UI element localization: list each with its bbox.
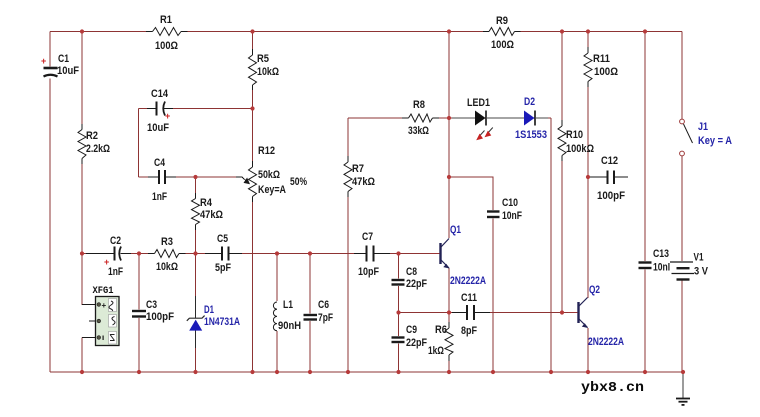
svg-text:R1: R1	[160, 14, 172, 26]
wire elbow vertical x138.5	[138, 109, 140, 178]
wire R6 vertical	[448, 313, 450, 373]
svg-text:1N4731A: 1N4731A	[204, 316, 240, 328]
svg-text:2N2222A: 2N2222A	[588, 336, 624, 348]
resistor R3	[148, 236, 186, 273]
svg-text:10kΩ: 10kΩ	[257, 66, 279, 78]
svg-text:90nH: 90nH	[278, 320, 301, 332]
switch J1	[680, 119, 732, 156]
transistor Q2	[568, 284, 624, 348]
svg-text:L1: L1	[283, 299, 293, 311]
node mid R2	[80, 251, 84, 255]
svg-text:C6: C6	[318, 299, 329, 311]
svg-text:LED1: LED1	[467, 97, 490, 109]
svg-text:R3: R3	[161, 236, 173, 248]
svg-text:C13: C13	[653, 248, 669, 260]
svg-text:R6: R6	[435, 324, 447, 336]
wire LED row y118	[348, 117, 551, 119]
svg-text:10pF: 10pF	[358, 266, 379, 278]
node mid C3	[137, 251, 141, 255]
svg-text:100pF: 100pF	[146, 311, 174, 323]
wire R4 vertical	[195, 177, 197, 254]
wire L1 vertical	[276, 254, 278, 373]
node bottom R12	[250, 370, 254, 374]
wire mid horizontal y253.5	[82, 253, 430, 255]
wire top horizontal	[50, 31, 682, 33]
node bottom C6	[308, 370, 312, 374]
wire D1 vertical	[195, 254, 197, 373]
svg-text:8pF: 8pF	[461, 325, 477, 337]
node bottom C3	[137, 370, 141, 374]
svg-text:50%: 50%	[290, 176, 307, 188]
svg-text:D1: D1	[204, 304, 214, 316]
svg-text:R7: R7	[352, 163, 364, 175]
wire C10 elbow	[449, 177, 493, 372]
diode D2	[512, 96, 548, 141]
node bottom R6	[447, 370, 451, 374]
wire C3 vertical	[138, 254, 140, 373]
svg-text:R4: R4	[200, 197, 213, 209]
svg-text:Q2: Q2	[589, 284, 600, 296]
wire J1 V1 vertical x682	[681, 32, 683, 120]
wire J1 bottom to V1	[681, 156, 683, 262]
svg-text:100pF: 100pF	[597, 190, 625, 202]
svg-text:C3: C3	[146, 299, 157, 311]
wire Q1 string vertical x449	[448, 32, 450, 239]
resistor R5	[248, 49, 280, 90]
potentiometer R12	[236, 145, 307, 202]
node bottom D2 line	[549, 370, 553, 374]
capacitor C9	[391, 324, 428, 349]
node C12 R11 junction	[586, 175, 590, 179]
node top C13 tap	[643, 29, 647, 33]
wire C6 vertical	[309, 254, 311, 373]
node mid L1	[275, 251, 279, 255]
wire Q2 emitter vertical	[587, 328, 589, 372]
svg-text:47kΩ: 47kΩ	[352, 176, 375, 188]
svg-text:+: +	[102, 301, 107, 310]
svg-text:+: +	[165, 111, 170, 121]
resistor R4	[191, 193, 224, 230]
svg-text:C14: C14	[151, 88, 169, 100]
node top Q1 tap	[447, 29, 451, 33]
svg-text:ybx8.cn: ybx8.cn	[581, 380, 644, 396]
node R8 LED junction	[447, 116, 451, 120]
capacitor C14	[147, 88, 173, 134]
battery V1	[670, 252, 709, 281]
capacitor C8	[391, 266, 428, 290]
capacitor C12	[590, 155, 628, 202]
capacitor C13	[638, 248, 674, 274]
node top R10 tap	[560, 29, 564, 33]
wire emitter-base horizontal y312.5	[399, 312, 579, 314]
svg-text:50kΩ: 50kΩ	[258, 169, 280, 181]
svg-text:33kΩ: 33kΩ	[408, 125, 429, 137]
capacitor C5	[205, 233, 242, 274]
node bottom L1	[275, 370, 279, 374]
svg-text:22pF: 22pF	[406, 337, 427, 349]
svg-text:R11: R11	[593, 53, 610, 65]
svg-text:C7: C7	[362, 231, 373, 243]
wire left vertical C1 branch	[49, 32, 51, 373]
svg-text:Q1: Q1	[450, 224, 461, 236]
svg-text:10kΩ: 10kΩ	[156, 261, 178, 273]
svg-text:47kΩ: 47kΩ	[200, 209, 223, 221]
LED LED1	[452, 97, 512, 140]
svg-text:Key=A: Key=A	[258, 184, 286, 196]
node bottom C10	[491, 370, 495, 374]
node bottom C9	[396, 370, 400, 374]
node mid C7 C8	[396, 251, 400, 255]
resistor R10	[557, 120, 594, 161]
wire Q1 emitter vertical	[448, 268, 450, 313]
svg-text:C9: C9	[406, 324, 417, 336]
node bottom R7	[346, 370, 350, 374]
wire R7 vertical	[347, 118, 349, 372]
capacitor C7	[354, 231, 390, 278]
svg-text:C10: C10	[502, 197, 518, 209]
node bottom V1 corner	[681, 370, 685, 374]
zener diode D1	[187, 296, 240, 348]
capacitor C1	[41, 53, 79, 79]
svg-text:3 V: 3 V	[694, 266, 709, 278]
svg-text:C4: C4	[154, 157, 166, 169]
svg-text:22pF: 22pF	[406, 278, 427, 290]
wire bottom horizontal y372	[50, 371, 683, 373]
svg-text:C5: C5	[217, 233, 228, 245]
capacitor C3	[131, 299, 174, 323]
svg-text:7pF: 7pF	[318, 312, 333, 324]
wire C14 horizontal y108.5	[139, 108, 253, 110]
svg-text:R2: R2	[86, 130, 98, 142]
ground	[676, 399, 690, 405]
node top R5 tap	[250, 29, 254, 33]
wire C13 vertical x645	[644, 32, 646, 373]
node C14 R5 junction	[250, 106, 254, 110]
wire C8 C9 vertical x398.5	[398, 254, 400, 373]
svg-text:10uF: 10uF	[147, 122, 169, 134]
node emitter wire Q1 R6	[447, 310, 451, 314]
svg-text:2N2222A: 2N2222A	[450, 275, 486, 287]
svg-text:R9: R9	[496, 15, 508, 27]
wire R2/XFG vertical x82	[81, 32, 83, 306]
capacitor C2 polarized	[86, 235, 131, 278]
svg-text:2.2kΩ: 2.2kΩ	[86, 143, 110, 155]
svg-text:C2: C2	[110, 235, 121, 247]
wire C4 horizontal y177	[139, 176, 239, 178]
svg-text:1nF: 1nF	[108, 266, 123, 278]
node bottom C13	[643, 370, 647, 374]
wire R10 vertical x562	[561, 32, 563, 313]
svg-text:R8: R8	[413, 99, 425, 111]
transistor Q1	[430, 224, 486, 287]
resistor R8	[402, 99, 439, 137]
svg-text:1S1553: 1S1553	[515, 129, 547, 141]
wire R5-R12 vertical x252.5	[252, 32, 254, 373]
wire V1 to ground	[681, 280, 683, 372]
function generator XFG1	[82, 285, 119, 346]
node top R2 tap	[80, 29, 84, 33]
capacitor C6	[303, 299, 334, 324]
node top R11 tap	[586, 29, 590, 33]
resistor R1	[146, 14, 188, 52]
node mid R4 C5 D1	[193, 251, 197, 255]
svg-text:C1: C1	[58, 53, 69, 65]
svg-text:R10: R10	[566, 129, 583, 141]
node C4 R4 junction	[193, 175, 197, 179]
svg-text:10uF: 10uF	[57, 65, 79, 77]
capacitor C11	[452, 292, 490, 337]
resistor R11	[583, 47, 618, 87]
wire XFG minus vertical x82	[81, 338, 83, 373]
svg-text:+: +	[104, 257, 109, 267]
node base wire R10	[560, 310, 564, 314]
wire R11 Q2 vertical x588	[587, 32, 589, 299]
svg-text:XFG1: XFG1	[93, 285, 114, 297]
svg-text:10nF: 10nF	[502, 210, 522, 222]
node mid C6	[308, 251, 312, 255]
svg-text:1nF: 1nF	[152, 191, 167, 203]
svg-text:100Ω: 100Ω	[594, 66, 618, 78]
inductor L1	[272, 299, 301, 332]
wire D2 corner vertical x551	[550, 118, 552, 372]
svg-text:J1: J1	[698, 121, 708, 133]
svg-text:Key = A: Key = A	[698, 135, 732, 147]
resistor R7	[343, 156, 375, 197]
resistor R2	[77, 124, 110, 164]
node bottom XFG	[80, 370, 84, 374]
svg-text:1kΩ: 1kΩ	[428, 345, 444, 357]
svg-text:100kΩ: 100kΩ	[566, 143, 594, 155]
svg-text:D2: D2	[524, 96, 535, 108]
svg-text:R5: R5	[257, 53, 269, 65]
svg-text:+: +	[41, 56, 46, 66]
node bottom D1	[193, 370, 197, 374]
svg-text:C8: C8	[406, 266, 417, 278]
svg-text:C11: C11	[461, 292, 477, 304]
svg-text:100Ω: 100Ω	[155, 40, 178, 52]
node emitter wire C8 C9	[396, 310, 400, 314]
node Q1 collector C10 junction	[447, 175, 451, 179]
svg-text:R12: R12	[258, 145, 275, 157]
svg-text:100Ω: 100Ω	[491, 39, 514, 51]
wire ground stem	[682, 372, 684, 399]
svg-text:C12: C12	[601, 155, 618, 167]
capacitor C4	[148, 157, 176, 203]
svg-text:V1: V1	[694, 252, 704, 264]
node bottom Q2 emitter	[586, 370, 590, 374]
resistor R6	[428, 322, 454, 361]
resistor R9	[483, 15, 521, 51]
capacitor C10	[486, 197, 522, 222]
svg-text:5pF: 5pF	[215, 262, 231, 274]
